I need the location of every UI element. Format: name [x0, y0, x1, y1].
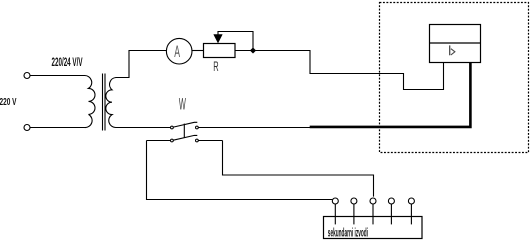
rheostat R body [204, 44, 236, 58]
junction dot [250, 48, 256, 54]
device divider [430, 42, 481, 44]
ammeter A1 [166, 38, 192, 64]
secondary terminal box [324, 217, 423, 239]
transformer core [102, 74, 104, 131]
terminal bottom (mains input) [24, 125, 30, 131]
wire switch pole1 out [198, 127, 311, 129]
switch W pole2 right contact [196, 139, 199, 142]
svg-text:220 V: 220 V [0, 96, 17, 108]
terminal 3 [370, 198, 376, 204]
wire left loop to terminal 1 [147, 141, 333, 200]
svg-text:W: W [179, 94, 186, 113]
wire rheostat output to right [235, 50, 311, 52]
switch W link bar [183, 124, 185, 138]
terminal 2 [351, 198, 357, 204]
wire primary bottom [30, 127, 85, 129]
terminal leads into box [335, 204, 411, 224]
terminal 4 [388, 198, 394, 204]
switch W pole1 blade [173, 122, 197, 127]
terminal top (mains input) [24, 73, 30, 79]
wire primary top [30, 75, 85, 77]
switch W pole2 blade [173, 135, 197, 140]
wire switch pole2 left [147, 140, 171, 142]
wire secondary top lead [116, 51, 167, 78]
switch W pole1 left contact [171, 126, 174, 129]
device symbol [450, 45, 455, 55]
terminal 1 [332, 198, 338, 204]
switch W pole2 left contact [171, 139, 174, 142]
wire stepped run to device [310, 51, 444, 90]
terminal 5 [408, 198, 414, 204]
svg-text:220/24 V/V: 220/24 V/V [52, 55, 83, 69]
wire secondary bottom lead [116, 127, 171, 129]
wire right loop to terminal 3 [223, 141, 374, 197]
svg-text:R: R [213, 58, 218, 74]
dashed enclosure [380, 3, 529, 153]
device body (spot-weld gun) [430, 25, 481, 63]
svg-text:A: A [174, 43, 180, 61]
wire switch pole2 right [198, 140, 222, 142]
switch W pole1 right contact [196, 126, 199, 129]
transformer T primary winding [85, 75, 96, 127]
thick cable from device [310, 63, 471, 127]
transformer T secondary winding [106, 78, 116, 128]
svg-text:sekundarni izvodi: sekundarni izvodi [328, 227, 368, 240]
wire ammeter to rheostat [192, 50, 204, 52]
rheostat wiper arrow [214, 35, 223, 43]
wire wiper to junction [218, 32, 253, 51]
